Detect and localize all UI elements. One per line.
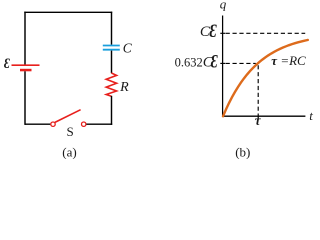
svg-text:Ɛ: Ɛ <box>4 54 10 71</box>
switch S terminal right <box>82 122 86 126</box>
svg-text:Ɛ: Ɛ <box>211 50 218 72</box>
svg-text:S: S <box>67 124 74 139</box>
battery plate long positive <box>12 64 40 66</box>
svg-text:(b): (b) <box>235 144 250 159</box>
battery plate short negative <box>20 69 32 72</box>
svg-text:Ɛ: Ɛ <box>209 20 217 42</box>
charging curve q(t) <box>223 40 308 116</box>
svg-text:R: R <box>119 80 129 95</box>
wire top <box>24 11 112 13</box>
wire left lower <box>24 71 26 125</box>
dashed line tau vertical <box>257 65 259 115</box>
svg-text:τ =RC: τ =RC <box>271 53 306 68</box>
wire bottom right <box>86 123 112 125</box>
asymptote dashed line Cemf <box>226 32 306 34</box>
svg-text:C: C <box>123 40 133 55</box>
wire right lower <box>111 96 113 125</box>
svg-text:t: t <box>309 108 313 123</box>
capacitor C1 plate top <box>103 45 120 47</box>
switch S lever <box>55 110 81 123</box>
svg-text:q: q <box>220 0 227 11</box>
resistor R1 zigzag <box>106 73 116 96</box>
tick 0.632Cemf <box>220 62 225 64</box>
wire left upper <box>24 12 26 65</box>
switch S terminal left <box>51 122 55 126</box>
wire right upper <box>111 12 113 45</box>
tick Cemf <box>220 32 225 34</box>
graph x-axis <box>222 115 305 117</box>
graph y-axis <box>222 16 224 117</box>
wire bottom left <box>25 123 50 125</box>
svg-text:(a): (a) <box>62 144 76 159</box>
tick tau <box>257 116 259 120</box>
svg-text:0.632C: 0.632C <box>175 55 214 71</box>
svg-text:τ: τ <box>255 113 262 128</box>
dashed line 0.632Cemf <box>226 62 256 64</box>
capacitor C1 plate bottom <box>103 49 120 51</box>
wire right middle <box>111 51 113 74</box>
